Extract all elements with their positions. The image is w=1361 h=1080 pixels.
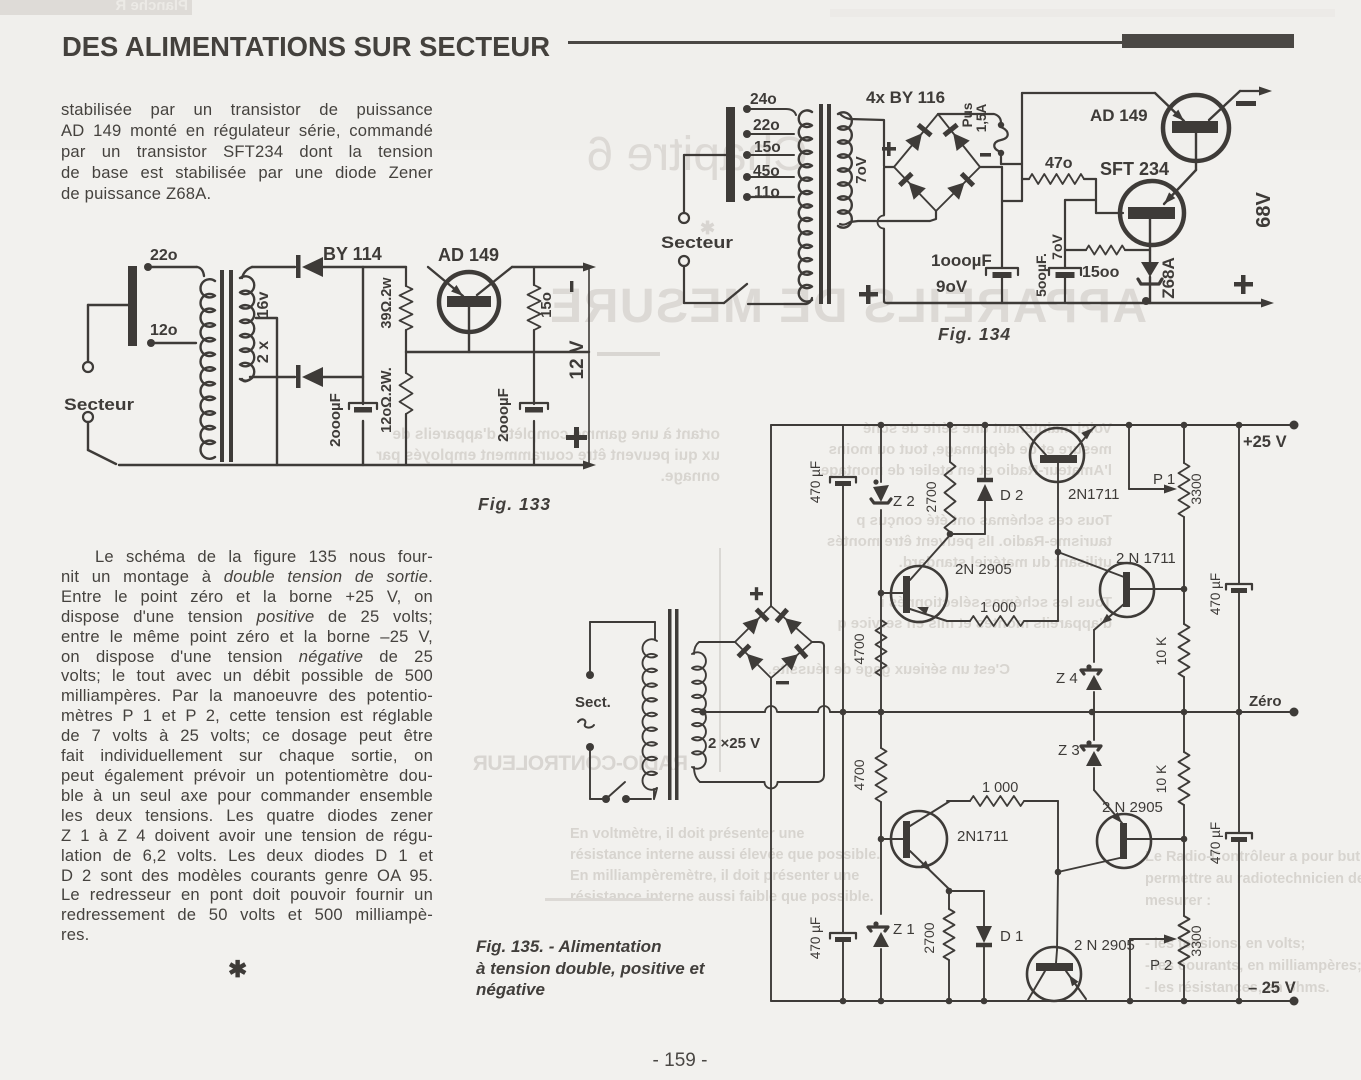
Fig 134: base wire to SFT234 <box>1096 179 1123 213</box>
Fig 135: bridge plus mark <box>750 587 763 600</box>
svg-text:P 2: P 2 <box>1150 957 1172 974</box>
Fig 135: potentiometer 3300 lower <box>1179 839 1190 1004</box>
Fig 134: tap labels <box>750 91 781 201</box>
Fig 134: zener Z68A <box>1138 262 1162 305</box>
Fig 133: wire diode top to node <box>323 266 406 268</box>
Fig 135: resistor 10K lower <box>1179 712 1190 839</box>
svg-text:2 N 2905: 2 N 2905 <box>1102 799 1163 816</box>
Fig 135: Sect label <box>575 694 611 711</box>
Fig 133: tap 220 terminal and wire <box>144 263 204 276</box>
Fig 134: transformer primary coil <box>799 110 812 301</box>
Fig 135: 470uF label lower-right <box>1208 822 1223 864</box>
svg-text:✱: ✱ <box>700 218 715 238</box>
Fig 135: resistor 10K upper <box>1179 624 1190 715</box>
Fig 135: resistor 1000 lower <box>947 796 1058 806</box>
Fig 135: resistor 4700 lower <box>876 712 887 842</box>
paragraph 1 <box>61 99 433 204</box>
Fig 134: plus mark left <box>859 285 878 304</box>
Fig 135: resistor 1000 upper <box>947 616 1058 626</box>
ghost heading <box>550 127 808 182</box>
Fig 134: top rail <box>1022 92 1155 94</box>
Fig 134: AD149 base to SFT emitter <box>1164 170 1196 204</box>
Fig 134: SFT234 label <box>1100 159 1169 179</box>
Fig 135: Z2 label <box>893 493 915 510</box>
Fig 135: 470uF label upper-right <box>1208 573 1223 615</box>
svg-text:470 µF: 470 µF <box>1208 573 1223 615</box>
svg-text:15o: 15o <box>754 139 781 156</box>
Fig 134: 500uF 70V labels <box>1033 234 1065 297</box>
Fig 135: 4700 upper label <box>851 633 867 664</box>
Fig 133: wire diode bottom to cap rail <box>323 376 363 378</box>
Fig 134: 500uF 70V cap rail <box>1065 200 1096 268</box>
Fig 135: Z4 label <box>1056 670 1078 687</box>
Fig 134: switch <box>684 266 747 303</box>
Fig 135: 470uF label upper-left <box>808 461 823 503</box>
caption Fig. 135 <box>476 936 766 1001</box>
Fig 134: fuse label <box>960 103 989 133</box>
Fig 133: transistor AD149 <box>428 267 512 352</box>
Fig 135: -25V terminal dot <box>1290 997 1299 1006</box>
Fig 135: zero junction x881 <box>878 709 885 716</box>
Fig 133: capacitor 2000uF input <box>349 403 377 413</box>
svg-text:1oooµF: 1oooµF <box>931 251 992 270</box>
Fig 135: zener Z4 <box>1081 630 1102 715</box>
header rule <box>568 41 1122 44</box>
Fig 134: bridge rectifier 4x BY116 <box>894 114 980 211</box>
Fig 135: base node T2 <box>1055 549 1124 621</box>
svg-text:22o: 22o <box>150 247 178 264</box>
Fig 135: Zero label <box>1249 693 1282 710</box>
svg-text:– 25 V: – 25 V <box>1248 979 1296 997</box>
svg-text:Z 2: Z 2 <box>893 493 915 510</box>
Fig 133: secondary label 2x16V <box>255 292 272 364</box>
svg-text:2oooµF: 2oooµF <box>495 388 512 442</box>
svg-text:2N 2905: 2N 2905 <box>955 561 1012 578</box>
Fig 135: transistor 2N2905 upper-left <box>891 535 950 622</box>
Fig 134: AC feed vertical with hop to plus rail <box>878 167 895 303</box>
svg-text:Z 4: Z 4 <box>1056 670 1078 687</box>
Fig 134: tap terminals and wires <box>743 105 796 201</box>
svg-text:Secteur: Secteur <box>64 395 134 414</box>
Fig 135: 4700 lower label <box>851 759 867 790</box>
Fig 135: zener Z2 <box>871 479 891 712</box>
Fig 134: transformer core <box>819 104 831 304</box>
Fig 135: cap rail zero junction <box>840 709 847 716</box>
Fig 135: bridge minus feed to bottom rail <box>770 678 772 1001</box>
svg-text:2N1711: 2N1711 <box>957 828 1008 845</box>
Fig 135: D2 label <box>1000 487 1023 504</box>
ghost text under Fig 133 <box>378 424 720 487</box>
Fig 133: mains selector electrode bar <box>128 266 137 346</box>
svg-text:Z 3: Z 3 <box>1058 742 1080 759</box>
Fig 135: 2N1711 lower label <box>957 828 1008 845</box>
svg-text:12o: 12o <box>150 322 178 339</box>
Fig 135: 2x25V label <box>708 735 760 752</box>
Fig 135: Z3 label <box>1058 742 1080 759</box>
Fig 134: bridge minus mark <box>980 153 991 157</box>
ghost text block left <box>570 824 850 908</box>
Fig 134: mains selector bar <box>726 107 735 202</box>
Fig 134: top vertex wire to fuse <box>938 114 1001 123</box>
Fig 134: 1500 label <box>1082 264 1120 281</box>
Fig 133: center tap wire to return rail <box>256 318 277 465</box>
Fig 133: minus polarity tick <box>570 281 573 292</box>
Fig 135: node B lower <box>946 888 984 895</box>
svg-text:Zéro: Zéro <box>1249 693 1282 710</box>
svg-text:2 N 2905: 2 N 2905 <box>1074 937 1135 954</box>
Fig 134: 4x BY116 label <box>866 88 945 107</box>
svg-text:10 K: 10 K <box>1153 764 1169 793</box>
Fig 134: transformer secondary coil <box>838 112 852 227</box>
Fig 134: 1000uF 90V labels <box>931 251 992 296</box>
Fig 135: 1000 lower label <box>982 780 1018 796</box>
Fig 134: wire selector to Secteur <box>684 155 726 212</box>
Fig 135: 3300 lower label <box>1188 925 1204 956</box>
Fig 135: resistor 2700 lower <box>944 891 955 1004</box>
Fig 133: 12V label <box>567 340 588 379</box>
Fig 135: bottom rail -25V <box>771 1000 1294 1002</box>
Fig 134: 68V label <box>1253 192 1275 228</box>
svg-text:15oo: 15oo <box>1082 264 1120 281</box>
svg-text:9oV: 9oV <box>936 277 968 296</box>
Fig 133: 150 label <box>538 292 555 318</box>
Fig 134: Secteur terminal top <box>679 213 689 223</box>
Fig 135: 2700 lower label <box>921 922 937 953</box>
Fig 134: resistor 1500 <box>1065 246 1150 255</box>
Fig 133: 120ohm label <box>379 367 395 433</box>
Fig 134: transistor AD149 <box>1155 91 1240 170</box>
Fig 133: tap 120 label <box>150 322 178 339</box>
Fig 135: switch <box>602 782 654 803</box>
Fig 134: transistor SFT234 <box>1120 181 1184 262</box>
Fig 135: transistor 2N2905 right <box>1058 790 1184 872</box>
svg-text:1 000: 1 000 <box>980 600 1016 616</box>
Fig 135: 10K lower label <box>1153 764 1169 793</box>
Fig 133: resistor 39ohm 2w <box>400 267 413 352</box>
svg-text:BY 114: BY 114 <box>323 244 382 264</box>
svg-text:Z68A: Z68A <box>1159 257 1178 299</box>
Fig 135: output cap rail upper right <box>1226 422 1252 716</box>
svg-text:7oV: 7oV <box>1049 234 1065 260</box>
Fig 133: transformer core <box>220 270 233 462</box>
Fig 133: diode BY114 bottom <box>296 365 323 388</box>
Fig 134: 70V secondary label <box>853 156 870 184</box>
svg-text:2700: 2700 <box>923 481 939 512</box>
ghost bleed-through badge top-left <box>0 0 192 15</box>
Fig 133: wire mains to selector bar <box>88 305 128 361</box>
Fig 133: tap 120 terminal and wire <box>147 339 196 347</box>
Fig 135: Z1 label <box>893 921 915 938</box>
svg-text:470 µF: 470 µF <box>808 917 823 959</box>
Fig 134: plus mark right <box>1234 275 1253 294</box>
Fig 134: bottom plus rail with arrow <box>887 299 1274 308</box>
svg-text:11o: 11o <box>754 184 780 201</box>
svg-text:D 1: D 1 <box>1000 928 1023 945</box>
Fig 135: 2N1711 top label <box>1068 486 1119 503</box>
Fig 135: base junction lower-left <box>878 836 903 843</box>
svg-text:Secteur: Secteur <box>661 233 733 252</box>
Fig 133: 2000uF label <box>327 393 344 447</box>
svg-text:D 2: D 2 <box>1000 487 1023 504</box>
Fig 133: Secteur label <box>64 395 134 414</box>
Fig 134: ghost star <box>700 218 715 238</box>
svg-text:Pus: Pus <box>960 103 975 128</box>
svg-text:15o: 15o <box>538 292 555 318</box>
svg-text:SFT 234: SFT 234 <box>1100 159 1169 179</box>
Fig 133: base drive wire <box>406 351 589 353</box>
Fig 135: filter cap rail upper <box>830 425 856 712</box>
Fig 135: P1 label <box>1153 471 1175 488</box>
svg-text:3300: 3300 <box>1188 473 1204 504</box>
Fig 134: secondary top wire to bridge <box>840 114 884 166</box>
Fig 133: transformer secondary coil 2x16V <box>240 267 254 381</box>
Fig 135: zener Z3 <box>1081 712 1102 790</box>
svg-text:24o: 24o <box>750 91 777 108</box>
ghost text right column 1 <box>772 418 1112 481</box>
Fig 133: diode BY114 top <box>296 255 323 278</box>
Fig 134: Z68A label <box>1159 257 1178 299</box>
svg-text:Sect.: Sect. <box>575 694 611 711</box>
Fig 133: tap 220 label <box>150 247 178 264</box>
Fig 135: filter cap rail lower <box>830 712 856 1004</box>
Fig 133: switch lever <box>88 422 116 464</box>
Fig 135: AC riser right vertex <box>812 642 824 775</box>
Fig 133: 12V indicator line <box>588 268 590 465</box>
svg-text:1,5A: 1,5A <box>974 103 989 132</box>
ghost heading RADIO-CONTROLEUR <box>502 752 688 776</box>
Fig 135: diode D2 <box>977 422 993 534</box>
Fig 133: AD149 label <box>438 245 499 265</box>
Fig 135: collector junction upper <box>1181 586 1188 593</box>
header end bar <box>1122 34 1294 48</box>
svg-text:12 V: 12 V <box>567 340 588 379</box>
page number <box>630 1050 730 1072</box>
Fig 133: resistor 120ohm 2W <box>400 352 413 465</box>
Fig 135: mains wire top <box>586 622 655 679</box>
Fig 135: transformer core <box>668 609 679 800</box>
Fig 135: top rail +25V <box>771 424 1294 426</box>
Fig 135: 2N1711 right label <box>1116 550 1176 567</box>
Fig 135: resistor 2700 upper <box>945 422 956 532</box>
Fig 134: AD149 label <box>1090 106 1148 125</box>
Fig 135: Z2 rail top <box>878 422 885 482</box>
svg-text:7oV: 7oV <box>853 156 870 184</box>
svg-text:4700: 4700 <box>851 759 867 790</box>
Fig 135: P1 wiper <box>1126 422 1177 494</box>
svg-text:AD 149: AD 149 <box>438 245 499 265</box>
Fig 134: resistor 470 <box>1022 174 1096 184</box>
Fig 135: bridge rectifier <box>735 606 812 678</box>
Fig 135: transistor 2N1711 right <box>1094 563 1184 630</box>
svg-text:2N1711: 2N1711 <box>1068 486 1119 503</box>
Fig 135: Sect squiggle <box>578 719 594 727</box>
Fig 134: fuse to rail riser <box>1001 93 1022 201</box>
svg-text:4x BY 116: 4x BY 116 <box>866 88 945 107</box>
svg-text:Z 1: Z 1 <box>893 921 915 938</box>
paragraph 2 <box>61 547 433 945</box>
svg-text:+25 V: +25 V <box>1243 433 1287 451</box>
Fig 135: P2 label <box>1150 957 1172 974</box>
Fig 135: diode D1 <box>976 891 992 1004</box>
svg-text:2 ×25 V: 2 ×25 V <box>708 735 760 752</box>
Fig 135: 2N2905 right label <box>1102 799 1163 816</box>
Fig 135: series transistor 2N2905 bottom <box>1027 947 1086 1001</box>
Fig 135: zero rail <box>699 706 1294 716</box>
Fig 135: transistor 2N1711 lower-left <box>891 801 950 889</box>
Fig 133: output wire top with arrow <box>512 263 596 272</box>
Fig 134: 470 label <box>1045 155 1073 172</box>
Fig 135: collector junction lower <box>1181 836 1188 843</box>
Fig 135: base node lower <box>1055 801 1062 950</box>
Fig 135: node A junction <box>947 531 985 538</box>
Fig 133: output 2000uF label <box>495 388 512 442</box>
Fig 135: transformer secondary coil <box>692 652 706 768</box>
Fig 134: capacitor 1000uF 90V <box>986 268 1018 303</box>
Fig 135: 2N2905 upper label <box>955 561 1012 578</box>
star mark <box>228 956 247 983</box>
svg-text:4700: 4700 <box>851 633 867 664</box>
svg-text:2 x: 2 x <box>255 341 272 363</box>
Fig 134: bridge plus mark <box>882 142 896 156</box>
Fig 135: secondary bottom wire to AC riser <box>694 767 824 789</box>
Fig 133: emitter resistor 150 <box>528 268 541 352</box>
ghost text block right-bottom <box>1145 846 1361 912</box>
Fig 133: bottom return rail with arrow <box>119 461 596 470</box>
Fig 134: node wire <box>1002 200 1022 202</box>
Fig 135: output cap rail lower right <box>1226 712 1252 1004</box>
Fig 134: minus polarity mark <box>1236 101 1256 106</box>
Fig 135: mains wire bottom <box>586 743 602 799</box>
Fig 135: P2 wiper <box>1127 935 1177 1005</box>
Fig 135: base junction upper-left <box>878 590 903 597</box>
Fig 133: BY114 label <box>323 244 382 264</box>
Fig 134: capacitor 500uF <box>1049 268 1081 303</box>
Fig 135: 3300 upper label <box>1188 473 1204 504</box>
Fig 135: zener Z1 <box>868 839 889 1004</box>
Fig 135: transformer primary coil <box>642 622 657 799</box>
svg-text:47o: 47o <box>1045 155 1073 172</box>
Fig 133: secondary top wire <box>252 266 295 268</box>
Fig 135: potentiometer 3300 upper <box>1179 422 1190 624</box>
Fig 134: Secteur terminal bottom <box>679 256 689 266</box>
Fig 133: secondary bottom wire <box>250 376 295 378</box>
Fig 135: D1 label <box>1000 928 1023 945</box>
Fig 134: wire switch to primary bottom <box>748 298 812 304</box>
Fig 133: capacitor 2000uF output <box>520 352 548 465</box>
Fig 135: 2700 upper label <box>923 481 939 512</box>
svg-text:2oooµF: 2oooµF <box>327 393 344 447</box>
svg-text:10 K: 10 K <box>1153 636 1169 665</box>
Fig 135: series transistor 2N1711 top <box>1019 425 1096 552</box>
Fig 133: plus polarity sign <box>566 427 587 448</box>
Fig 135: -25V label <box>1248 979 1296 997</box>
Fig 135: +25V terminal dot <box>1290 421 1299 430</box>
Fig 134: Secteur label <box>661 233 733 252</box>
Fig 135: 1000 upper label <box>980 600 1016 616</box>
Fig 135: bridge minus mark <box>776 681 789 684</box>
Fig 134: secondary bottom wire to bridge bottom <box>840 211 936 225</box>
page header title <box>62 31 562 63</box>
svg-text:2700: 2700 <box>921 922 937 953</box>
Fig 135: bridge plus feed to top rail <box>770 425 772 606</box>
Fig 133: Secteur terminal bottom <box>83 412 93 422</box>
Fig 135: +25V label <box>1243 433 1287 451</box>
Fig 133: 39ohm label <box>379 277 395 329</box>
svg-text:22o: 22o <box>753 117 780 134</box>
svg-text:3300: 3300 <box>1188 925 1204 956</box>
Fig 135: secondary top wire to bridge left vertex <box>694 642 735 654</box>
svg-text:12oΩ.2W.: 12oΩ.2W. <box>379 367 395 433</box>
svg-text:5ooµF.: 5ooµF. <box>1033 253 1049 297</box>
svg-text:39Ω.2w: 39Ω.2w <box>379 277 395 329</box>
Fig 134: fuse 1.5A <box>994 122 1008 156</box>
Fig 134: right vertex wire down <box>980 167 1002 268</box>
caption Fig. 133 <box>478 494 551 515</box>
Fig 135: 2N2905 bottom label <box>1074 937 1135 954</box>
Fig 133: Secteur terminal top <box>83 362 93 372</box>
Fig 133: transformer primary coil <box>201 279 215 459</box>
Fig 133: filter cap rail <box>362 267 364 465</box>
svg-text:470 µF: 470 µF <box>1208 822 1223 864</box>
Fig 134: output wire minus with arrow <box>1240 87 1272 96</box>
svg-text:470 µF: 470 µF <box>808 461 823 503</box>
Fig 135: zero terminal dot <box>1290 708 1299 717</box>
Fig 135: 10K upper label <box>1153 636 1169 665</box>
svg-text:68V: 68V <box>1253 192 1275 228</box>
svg-text:1 000: 1 000 <box>982 780 1018 796</box>
svg-text:2 N 1711: 2 N 1711 <box>1116 550 1176 567</box>
svg-text:AD 149: AD 149 <box>1090 106 1148 125</box>
Fig 135: resistor 4700 upper <box>876 620 887 676</box>
svg-text:P 1: P 1 <box>1153 471 1175 488</box>
Fig 135: 470uF label lower-left <box>808 917 823 959</box>
caption Fig. 134 <box>938 324 1011 345</box>
svg-text:16v: 16v <box>255 292 272 319</box>
